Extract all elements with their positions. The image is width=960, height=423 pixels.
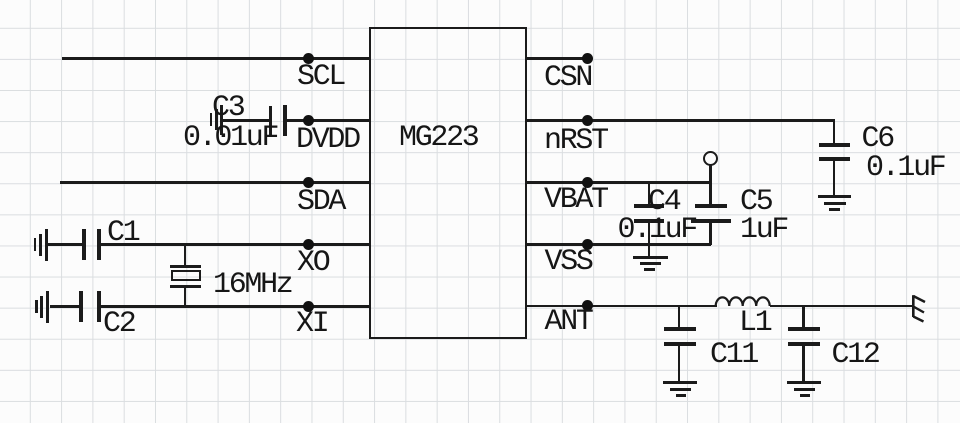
- pin label ANT: [545, 307, 592, 337]
- wire XO left segment: [47, 243, 82, 245]
- pin label VBAT: [544, 185, 607, 215]
- capacitor C6 ref label: [862, 124, 893, 154]
- capacitor C2 ref label: [103, 309, 134, 339]
- capacitor C1 ref label: [107, 218, 138, 248]
- capacitor C12 ref label: [832, 340, 879, 370]
- pin label XI: [296, 309, 327, 339]
- capacitor C11 top plate: [664, 327, 696, 331]
- node nRST junction dot: [582, 115, 593, 126]
- wire C4 to ground: [648, 222, 650, 256]
- capacitor C11 ref label: [710, 340, 757, 370]
- ground (small rotated stub) at C3 left: [210, 113, 213, 126]
- wire VBAT: [525, 181, 711, 183]
- ground (small rotated stub) at C2 left: [35, 300, 38, 313]
- ground (small rotated stub) at C1 left: [34, 238, 37, 251]
- wire C12 to ground: [802, 344, 804, 382]
- wire C12 drop from ANT: [802, 306, 804, 329]
- wire CSN stub: [525, 57, 588, 59]
- wire C5 to VSS: [709, 222, 711, 245]
- capacitor C4 top plate: [634, 204, 664, 208]
- pin label SCL: [297, 62, 344, 92]
- wire C6 drop from nRST: [833, 120, 835, 143]
- wire SDA: [60, 181, 370, 183]
- pin label CSN: [544, 63, 591, 93]
- ground below C4: [633, 256, 668, 259]
- crystal Y1 value label 16MHz: [213, 270, 292, 300]
- capacitor C3 ref label: [212, 93, 243, 123]
- capacitor C12 top plate: [788, 327, 820, 331]
- wire circle to C5: [709, 164, 711, 205]
- wire SCL (pin 1 net): [62, 57, 370, 59]
- capacitor C5 top plate: [695, 204, 727, 208]
- node XI junction dot: [303, 301, 314, 312]
- antenna connector at ANT right end: [908, 292, 930, 325]
- capacitor C6 value label: [866, 153, 945, 183]
- wire nRST: [525, 119, 835, 121]
- wire C11 to ground: [678, 345, 680, 382]
- wire ANT left segment: [525, 305, 717, 307]
- capacitor C4 bottom plate: [634, 219, 664, 223]
- pin label nRST: [544, 126, 607, 156]
- node SDA junction dot: [303, 177, 314, 188]
- capacitor C5 bottom plate: [691, 219, 731, 223]
- wire C11 drop from ANT: [678, 306, 680, 329]
- node VBAT junction dot: [582, 177, 593, 188]
- pin label SDA: [297, 187, 344, 217]
- capacitor C5 ref label: [740, 187, 771, 217]
- capacitor C6 top plate: [819, 143, 850, 147]
- wire C6 to ground: [833, 160, 835, 195]
- capacitor C6 bottom plate: [819, 157, 850, 161]
- capacitor C1 plates: [82, 229, 86, 261]
- capacitor C2 plates: [79, 291, 83, 323]
- ground below C12: [787, 381, 821, 384]
- crystal Y1 stem top: [184, 244, 186, 266]
- terminal circle above C5: [703, 151, 718, 166]
- wire DVDD right segment: [287, 119, 370, 121]
- node XO junction dot: [303, 239, 314, 250]
- crystal Y1 bottom plate: [170, 285, 201, 288]
- wire XI right segment: [101, 305, 371, 307]
- node SCL junction dot: [303, 53, 314, 64]
- wire ANT right segment after L1: [770, 305, 912, 307]
- wire C4 drop from VBAT: [648, 182, 650, 206]
- pin label VSS: [545, 247, 592, 277]
- ground below C11: [663, 381, 697, 384]
- capacitor C3 plates: [269, 106, 273, 136]
- crystal Y1 stem bottom: [184, 287, 186, 306]
- node CSN junction dot: [582, 53, 593, 64]
- capacitor C12 bottom plate: [788, 342, 820, 346]
- pin label XO: [297, 248, 328, 278]
- crystal Y1 top plate: [170, 265, 201, 268]
- IC U1 part label MG223: [399, 123, 478, 153]
- node VSS junction dot: [582, 239, 593, 250]
- capacitor C5 value label: [740, 215, 787, 245]
- ground below C6: [818, 195, 852, 198]
- wire XI left segment: [50, 305, 80, 307]
- capacitor C11 bottom plate: [664, 342, 696, 346]
- node ANT junction dot: [582, 300, 593, 311]
- capacitor C3 value label: [183, 123, 277, 153]
- inductor L1 ref label: [739, 308, 770, 338]
- crystal Y1 body rectangle: [171, 270, 201, 281]
- inductor L1 arcs: [714, 294, 772, 307]
- capacitor C4 value label: [618, 215, 697, 245]
- pin label DVDD: [296, 125, 359, 155]
- wire XO right segment: [101, 243, 370, 245]
- wire DVDD left segment: [221, 119, 269, 121]
- node DVDD junction dot: [303, 115, 314, 126]
- wire VSS: [525, 243, 711, 245]
- IC U1 MG223 body: [369, 27, 526, 339]
- capacitor C4 ref label: [648, 187, 679, 217]
